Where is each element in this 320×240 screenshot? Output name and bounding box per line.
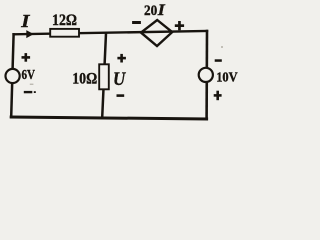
plus sign of 6V <box>22 53 31 62</box>
svg-text:12Ω: 12Ω <box>52 12 77 29</box>
wire right branch <box>205 31 208 119</box>
minus sign of dependent source <box>132 21 141 24</box>
resistor R1 12ohm box <box>50 29 79 37</box>
wire bottom <box>11 117 206 119</box>
minus sign of 6V <box>24 91 33 93</box>
minus sign of 10V <box>215 59 222 62</box>
svg-text:U: U <box>113 69 126 90</box>
wire left branch <box>11 34 13 116</box>
wire top (node a to node b) <box>14 31 207 34</box>
svg-text:10V: 10V <box>216 71 238 86</box>
faint scan mark below 6V <box>30 84 34 85</box>
svg-text:10Ω: 10Ω <box>72 70 97 87</box>
stray dot after minus <box>34 91 36 93</box>
dependent source E1 diamond 20I <box>141 20 172 46</box>
plus sign of 10V <box>214 91 222 101</box>
svg-text:I: I <box>157 2 166 19</box>
current arrow for I <box>26 30 33 38</box>
resistor R2 10ohm box <box>99 64 109 89</box>
voltage source V1 6V circle <box>6 69 20 83</box>
svg-text:6V: 6V <box>22 68 36 83</box>
svg-text:I: I <box>20 11 31 31</box>
wire middle branch <box>102 33 106 117</box>
scan speck near diamond <box>221 46 223 48</box>
voltage source V2 10V circle <box>199 68 213 82</box>
plus sign of U <box>117 54 126 63</box>
plus sign of dependent source <box>175 21 184 30</box>
minus sign of U <box>117 94 125 97</box>
svg-text:20: 20 <box>144 3 157 19</box>
